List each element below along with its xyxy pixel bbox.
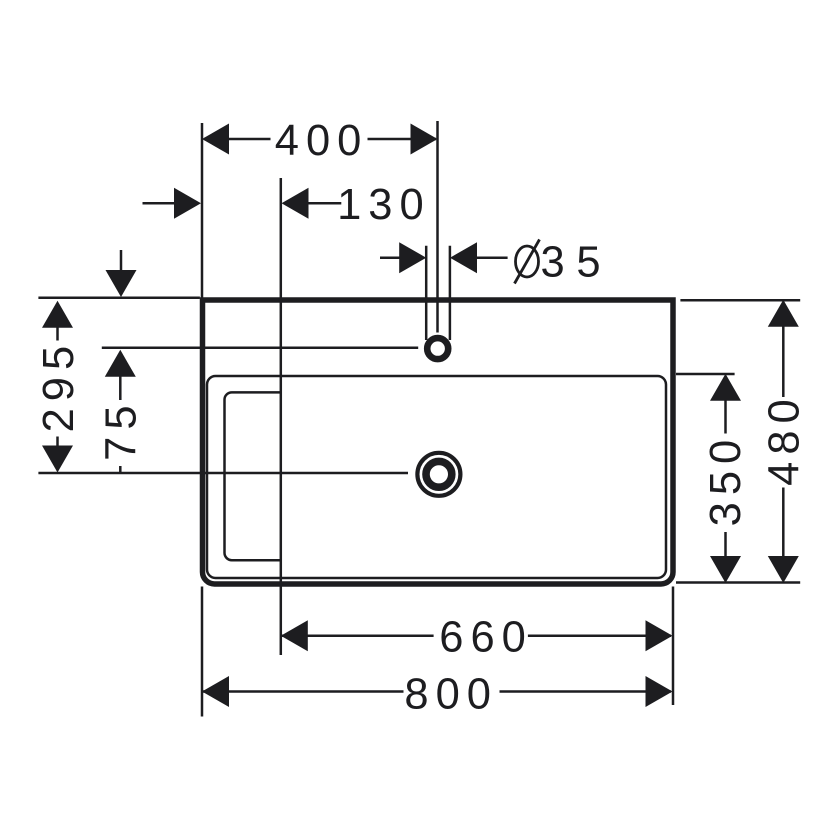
svg-text:350: 350 xyxy=(702,433,750,527)
svg-text:3: 3 xyxy=(540,238,571,286)
svg-text:295: 295 xyxy=(35,339,83,433)
svg-text:480: 480 xyxy=(761,392,809,486)
svg-text:5: 5 xyxy=(576,238,607,286)
svg-text:800: 800 xyxy=(404,670,498,718)
svg-text:130: 130 xyxy=(337,181,431,229)
svg-text:75: 75 xyxy=(98,398,146,460)
svg-text:400: 400 xyxy=(275,117,369,165)
svg-text:660: 660 xyxy=(439,613,533,661)
